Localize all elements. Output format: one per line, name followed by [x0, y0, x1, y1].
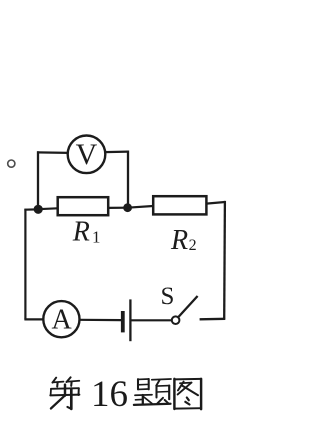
svg-text:R: R — [72, 216, 90, 247]
label R1 — [72, 216, 101, 247]
svg-text:R: R — [170, 225, 188, 256]
wire node to R1 — [38, 207, 58, 210]
resistor R2 body — [153, 196, 206, 214]
battery positive plate (long) — [129, 299, 131, 341]
caption character TU (图) — [174, 379, 201, 409]
caption character TI (题) — [134, 379, 171, 405]
switch S lever — [178, 296, 197, 317]
wire left vertical — [24, 209, 26, 320]
resistor R1 body — [58, 197, 108, 215]
terminal circle (left margin) — [8, 160, 15, 167]
node junction right — [123, 203, 132, 212]
switch S pivot — [172, 316, 180, 324]
wire left corner to node — [24, 208, 38, 211]
wire ammeter to battery — [79, 319, 121, 322]
svg-text:V: V — [76, 138, 98, 171]
wire R1 to node — [108, 207, 127, 209]
label R2 — [170, 225, 197, 256]
wire battery to switch — [131, 319, 172, 321]
wire node to R2 — [128, 206, 153, 208]
wire right vertical — [223, 201, 226, 320]
wire bottom-right corner to switch — [200, 318, 226, 321]
svg-text:16: 16 — [91, 374, 128, 415]
battery negative plate (short thick) — [121, 311, 125, 332]
svg-text:1: 1 — [92, 228, 101, 247]
wire R2 to right corner — [206, 202, 225, 204]
svg-text:S: S — [161, 283, 175, 310]
wire bottom-left corner to ammeter — [24, 318, 43, 320]
caption character DI (第) — [50, 377, 79, 409]
svg-text:2: 2 — [189, 237, 197, 254]
wire top-left to voltmeter — [37, 151, 68, 154]
svg-text:A: A — [51, 305, 72, 336]
wire voltmeter left leg — [37, 151, 39, 209]
node junction left — [34, 205, 43, 214]
wire voltmeter right leg — [127, 151, 129, 208]
wire voltmeter to top-right corner — [105, 150, 129, 153]
voltmeter V — [68, 136, 106, 174]
ammeter A — [43, 301, 79, 337]
